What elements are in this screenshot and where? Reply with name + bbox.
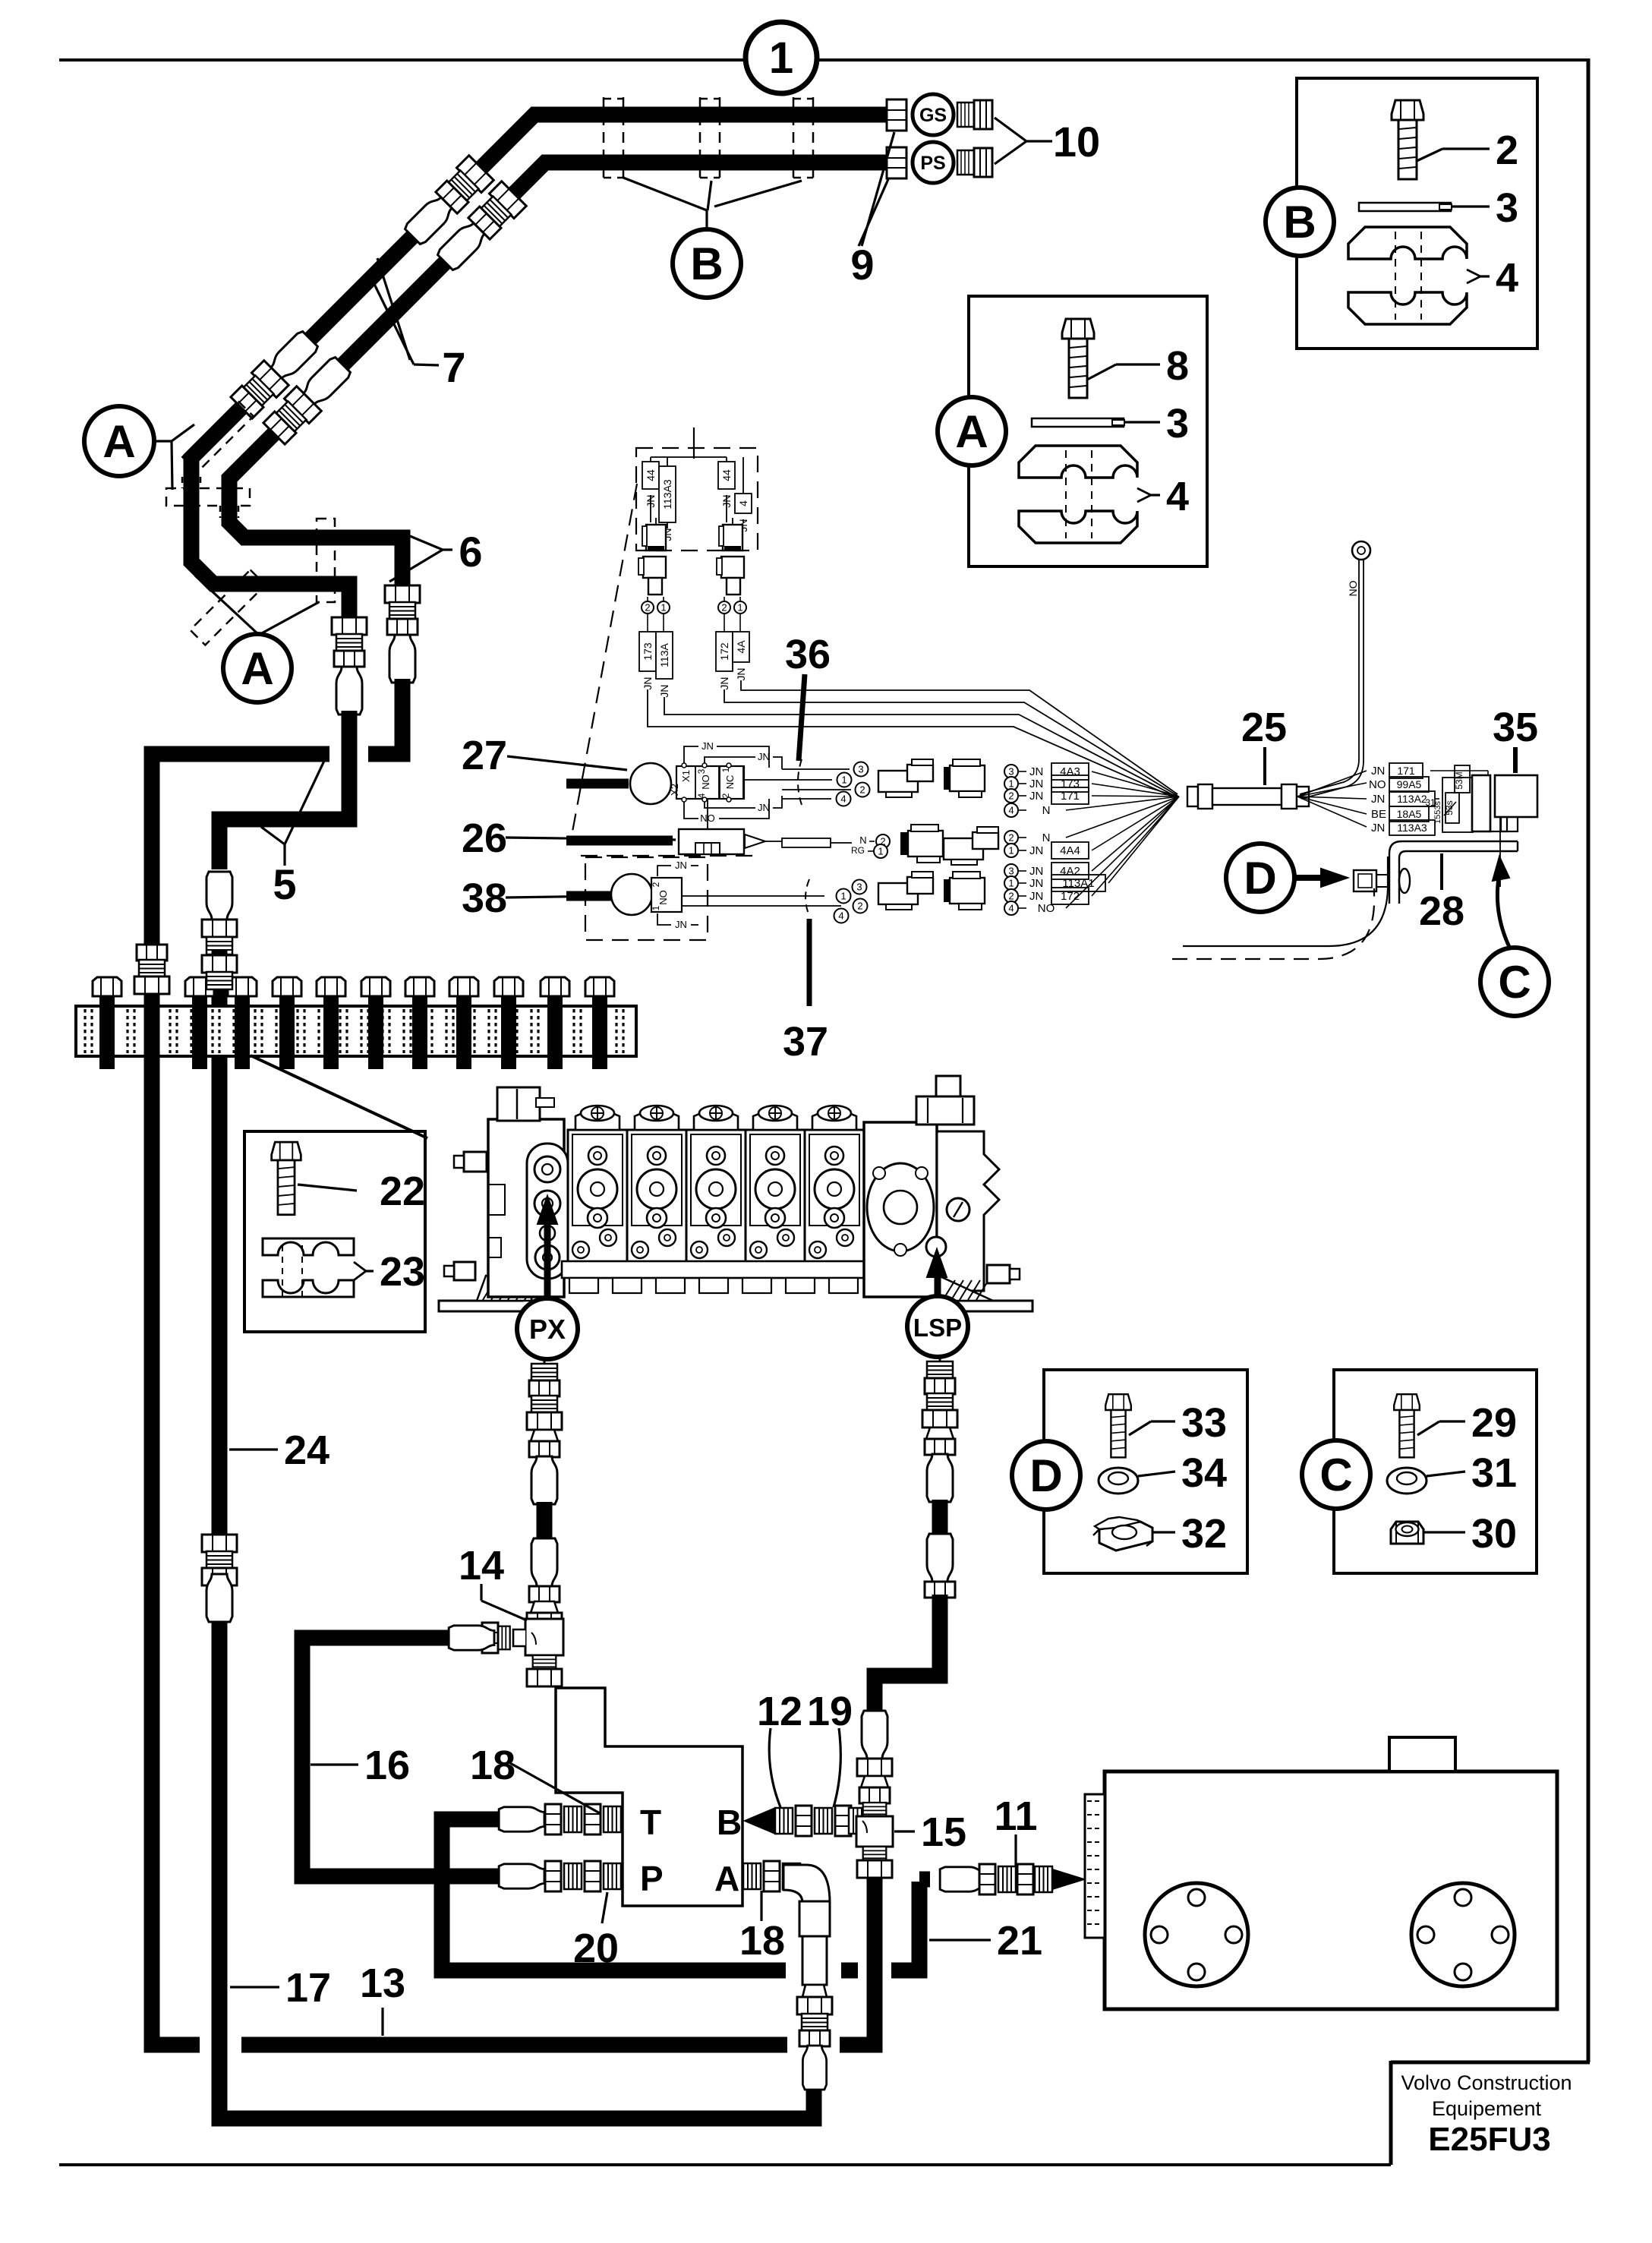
solenoid plug at x=851 xyxy=(646,525,666,550)
svg-text:15: 15 xyxy=(921,1809,966,1855)
balloon B xyxy=(673,229,741,298)
svg-text:C: C xyxy=(1319,1450,1352,1500)
svg-text:44: 44 xyxy=(720,469,733,481)
svg-text:171: 171 xyxy=(1061,790,1080,803)
fitting group on GS diagonal (nut+ferrule+nut) xyxy=(434,156,493,215)
label 3 leader (A) xyxy=(1124,421,1160,423)
svg-text:173: 173 xyxy=(642,642,654,661)
bolt 29 xyxy=(1394,1394,1420,1457)
balloon A lower with leaders xyxy=(195,576,259,635)
valve end section (LS / relief) xyxy=(864,1122,937,1297)
balloon A detail xyxy=(938,397,1006,465)
boxed label JN44 left xyxy=(642,462,659,489)
bolt 22 xyxy=(272,1142,301,1215)
hose 24 upper run xyxy=(212,951,228,1535)
hose end nut GS xyxy=(887,99,906,131)
clamp 4 (A box) xyxy=(1019,446,1137,543)
balloon D detail xyxy=(1012,1441,1080,1510)
svg-text:NO: NO xyxy=(657,890,669,905)
tank inlet strip xyxy=(1085,1794,1105,1938)
hydraulic tank xyxy=(1105,1771,1557,2009)
valve section 4 xyxy=(746,1130,805,1263)
port arrow PX xyxy=(544,1215,551,1300)
detail box A xyxy=(969,296,1207,566)
svg-text:173: 173 xyxy=(1061,778,1080,790)
lower fitting bullet on PS diagonal xyxy=(300,355,352,408)
nut+ferrule below bullet (hose 24) xyxy=(202,920,237,937)
svg-text:JN: JN xyxy=(1029,865,1043,878)
tank flange right xyxy=(1411,1883,1515,1986)
title block step lines xyxy=(1391,2061,1590,2065)
hose 7 upper (to GS) xyxy=(191,115,888,620)
svg-text:JN: JN xyxy=(1029,790,1043,803)
dashed clamp on diagonals (A) xyxy=(182,401,253,472)
balloon PX xyxy=(517,1298,578,1359)
svg-text:E25FU3: E25FU3 xyxy=(1428,2121,1550,2158)
svg-text:34: 34 xyxy=(1181,1450,1227,1496)
control valve block xyxy=(439,1287,531,1311)
label 23 leader xyxy=(354,1262,366,1280)
svg-text:18: 18 xyxy=(470,1743,515,1788)
wire label JN4A xyxy=(739,614,741,632)
fitting hose16 at T-14 (ferrule+nut+bullet) xyxy=(494,1626,510,1650)
svg-text:3: 3 xyxy=(856,882,862,893)
hose-end fitting right column (hose to PS) xyxy=(385,585,420,635)
fitting 11 with arrow into tank xyxy=(919,1872,930,1888)
label 16 leader xyxy=(311,1763,358,1765)
svg-text:113A3: 113A3 xyxy=(661,479,673,509)
svg-text:P: P xyxy=(640,1859,664,1898)
svg-text:A: A xyxy=(955,406,988,457)
union fitting on hose 24/17 xyxy=(202,1535,237,1585)
wire label JN113A xyxy=(663,614,664,632)
label 7 with leaders xyxy=(372,279,414,364)
tank flange left xyxy=(1145,1883,1248,1986)
crimp bullet on hose 24 top xyxy=(206,872,232,920)
svg-text:B: B xyxy=(717,1803,742,1842)
hose 24/17 fitting at manifold (hex+ferrule) xyxy=(202,955,237,973)
label 22 leader xyxy=(298,1185,357,1191)
connector housing below box x=847 xyxy=(643,557,666,578)
svg-text:6: 6 xyxy=(459,528,482,576)
svg-text:3: 3 xyxy=(1496,185,1518,231)
svg-text:BE: BE xyxy=(1371,808,1386,821)
label 6 with leaders xyxy=(410,536,443,550)
panel edge (solid + dashed) xyxy=(1183,857,1388,946)
svg-text:2: 2 xyxy=(645,602,650,614)
dashed clamp on verticals (A) xyxy=(166,488,250,506)
pin numbers under housings xyxy=(642,601,654,614)
washer 34 xyxy=(1099,1468,1138,1494)
svg-text:1: 1 xyxy=(737,602,742,614)
svg-text:2: 2 xyxy=(651,882,661,887)
svg-text:1: 1 xyxy=(878,846,883,857)
port marker PS xyxy=(913,142,954,183)
hose 16 xyxy=(302,1638,495,1876)
svg-text:JN: JN xyxy=(642,677,654,689)
JN bracket wiring bottom xyxy=(684,801,698,819)
svg-text:12: 12 xyxy=(757,1689,802,1734)
svg-text:1: 1 xyxy=(769,33,793,83)
svg-text:36: 36 xyxy=(785,632,831,677)
svg-text:Equipement: Equipement xyxy=(1432,2097,1542,2120)
bolt 8 xyxy=(1062,319,1094,398)
crimp bullet on PS diagonal xyxy=(436,219,488,272)
manifold bar hatch dots xyxy=(84,1009,86,1053)
bolt 2 xyxy=(1392,100,1423,179)
svg-text:1: 1 xyxy=(660,602,666,614)
clamp dashes on top hoses (positions B) xyxy=(603,97,605,179)
svg-text:28: 28 xyxy=(1419,888,1464,934)
lower fitting nut group on PS diagonal xyxy=(262,386,321,446)
svg-text:3: 3 xyxy=(696,768,707,774)
svg-text:JN: JN xyxy=(1371,793,1385,806)
T-fitting 14 xyxy=(525,1619,563,1655)
svg-text:JN: JN xyxy=(1029,844,1043,857)
boxed label JN4 xyxy=(735,494,752,513)
label 2 leader xyxy=(1417,149,1442,161)
balloon LSP xyxy=(907,1296,968,1357)
svg-text:T: T xyxy=(640,1803,661,1842)
svg-text:NO: NO xyxy=(1347,580,1359,596)
detail box 22/23 xyxy=(244,1131,425,1332)
svg-text:JN: JN xyxy=(758,802,770,813)
svg-text:NC: NC xyxy=(724,775,736,790)
pigtail from 26 xyxy=(745,834,765,848)
svg-text:JN: JN xyxy=(735,667,747,680)
svg-text:10: 10 xyxy=(1053,118,1100,166)
wire from relay to bracket xyxy=(1499,817,1501,887)
svg-text:5: 5 xyxy=(273,860,296,908)
svg-text:4A2: 4A2 xyxy=(1060,865,1080,878)
svg-text:JN: JN xyxy=(1029,778,1043,790)
connector mini-block xyxy=(1442,778,1473,832)
pressure switch 27 xyxy=(630,763,671,804)
nut 30 xyxy=(1391,1522,1423,1544)
label 11 leader xyxy=(1014,1834,1017,1866)
label 25 leader xyxy=(1263,747,1266,785)
svg-text:172: 172 xyxy=(718,642,730,661)
hydraulic stub to valve 26 xyxy=(566,836,673,846)
svg-text:1: 1 xyxy=(841,774,846,786)
svg-text:4: 4 xyxy=(838,910,843,922)
label 14 leader xyxy=(480,1584,482,1601)
solenoid 38 xyxy=(611,874,652,915)
washer 31 xyxy=(1387,1468,1427,1494)
cable marker 36 xyxy=(798,759,802,805)
svg-text:30: 30 xyxy=(1471,1511,1517,1557)
svg-text:PX: PX xyxy=(529,1314,566,1345)
hose segment below left column xyxy=(219,711,349,869)
boxed label JN44 right xyxy=(718,462,735,489)
svg-text:37: 37 xyxy=(783,1019,828,1065)
hose below T-15 to band 13 xyxy=(840,1878,875,2045)
clamp 4 (two-hole block pair) xyxy=(1348,227,1467,324)
valve section 1 xyxy=(568,1130,627,1263)
svg-text:2: 2 xyxy=(1496,128,1518,173)
svg-text:113A2: 113A2 xyxy=(1397,793,1427,805)
label 15 leader xyxy=(894,1830,915,1832)
connector pair bottom xyxy=(878,883,918,904)
ring terminal wire xyxy=(1300,560,1359,794)
hose-end fitting left column (hose to GS) xyxy=(332,617,367,667)
svg-text:B: B xyxy=(1283,197,1316,248)
svg-text:B: B xyxy=(690,238,723,289)
svg-text:JN: JN xyxy=(675,919,687,930)
balloon C detail xyxy=(1302,1440,1370,1509)
electrical: dashed connector box top xyxy=(636,448,758,550)
lower fitting nut group on GS diagonal xyxy=(229,361,288,420)
A-port elbow fitting stack xyxy=(743,1863,761,1889)
svg-text:53M: 53M xyxy=(1454,771,1464,789)
svg-text:2: 2 xyxy=(1008,832,1014,844)
svg-text:PS: PS xyxy=(920,153,945,174)
svg-text:35: 35 xyxy=(1493,705,1538,750)
svg-text:JN: JN xyxy=(1029,890,1043,903)
label 3 leader xyxy=(1451,205,1490,207)
JN bracket wiring top xyxy=(684,746,698,764)
svg-text:26: 26 xyxy=(462,815,507,861)
svg-text:3: 3 xyxy=(1008,766,1014,778)
svg-text:21: 21 xyxy=(997,1918,1042,1964)
label 21 leader xyxy=(929,1939,991,1941)
band B3 left part (hose 5 upper) xyxy=(152,754,329,951)
svg-text:25: 25 xyxy=(1241,705,1287,750)
diverter valve box outline xyxy=(556,1688,742,1906)
svg-text:N: N xyxy=(1042,804,1051,817)
port arrow LSP xyxy=(935,1272,941,1296)
clamp halves 23 xyxy=(263,1238,354,1255)
svg-text:2: 2 xyxy=(857,901,862,912)
LSP hose fitting stack xyxy=(939,1357,941,1364)
svg-text:JN: JN xyxy=(758,751,770,762)
connector housing below box x=950 xyxy=(721,557,744,578)
washer 3 (A) xyxy=(1032,418,1124,427)
lower fitting bullet on GS diagonal xyxy=(267,330,320,382)
svg-text:4: 4 xyxy=(1496,255,1518,301)
svg-text:18A5: 18A5 xyxy=(1397,808,1422,820)
svg-text:27: 27 xyxy=(462,733,507,778)
leader from manifold to detail box 22/23 xyxy=(251,1055,427,1138)
fitting row at P port (20) xyxy=(495,1869,531,1885)
leader lines to balloon B xyxy=(623,178,707,210)
svg-text:RG: RG xyxy=(851,845,865,856)
detail box C xyxy=(1334,1370,1537,1573)
label 10 with leaders xyxy=(995,118,1026,141)
svg-text:22: 22 xyxy=(380,1169,425,1214)
LSP lower crimp stack xyxy=(927,1534,953,1582)
detail box D xyxy=(1044,1370,1247,1573)
manifold clamp bar xyxy=(76,1006,636,1056)
bolt at D xyxy=(1354,870,1376,891)
solenoid plug at x=952 xyxy=(723,525,742,550)
hydraulic stub to solenoid 38 xyxy=(566,891,612,901)
svg-text:1: 1 xyxy=(1008,845,1014,857)
svg-text:4: 4 xyxy=(1008,903,1014,914)
svg-text:4: 4 xyxy=(840,793,846,805)
hose LSP short segment xyxy=(932,1500,948,1538)
labels 12 19 with leaders xyxy=(769,1728,780,1807)
connector pair middle xyxy=(908,831,943,857)
svg-text:38: 38 xyxy=(462,875,507,921)
dashed clamp lower diagonal jog xyxy=(191,570,266,645)
hose 17 lower run to A port stack xyxy=(219,1535,814,2118)
svg-text:11: 11 xyxy=(994,1793,1037,1839)
svg-text:17: 17 xyxy=(285,1965,331,2011)
svg-text:31: 31 xyxy=(1471,1450,1517,1496)
label 28 leader xyxy=(1440,853,1443,890)
relay block X1/X2 xyxy=(676,766,744,799)
svg-text:19: 19 xyxy=(807,1689,853,1734)
svg-text:JN: JN xyxy=(1371,822,1385,834)
svg-text:JN: JN xyxy=(718,677,730,689)
balloon 1 xyxy=(746,22,817,93)
port marker GS xyxy=(913,94,954,135)
switch 26 body xyxy=(679,829,744,854)
svg-text:113A3: 113A3 xyxy=(1397,822,1427,834)
svg-text:8: 8 xyxy=(1166,343,1189,389)
dashed boundary around switch assembly xyxy=(581,855,758,857)
arrow into B port xyxy=(745,1809,774,1833)
svg-text:JN: JN xyxy=(701,740,714,752)
hydraulic stub to switch 27 xyxy=(566,779,629,789)
svg-text:13: 13 xyxy=(360,1961,405,2006)
PX lower crimp stack xyxy=(531,1538,557,1586)
fitting group on PS diagonal (nut+ferrule+nut) xyxy=(467,181,526,241)
svg-text:3: 3 xyxy=(1166,401,1189,446)
svg-text:GS: GS xyxy=(919,105,947,126)
hose PX short segment xyxy=(537,1502,553,1538)
balloon C with curved arrow xyxy=(1480,948,1549,1016)
label 8 leader xyxy=(1087,364,1116,380)
manifold bolts xyxy=(93,977,121,1069)
label 27 leader xyxy=(507,756,627,770)
svg-text:18: 18 xyxy=(739,1918,785,1964)
wires to harness xyxy=(648,689,1178,799)
svg-text:171: 171 xyxy=(1397,765,1415,777)
relay 35 and bracket xyxy=(1472,775,1490,831)
svg-text:A: A xyxy=(241,643,273,694)
svg-text:A: A xyxy=(714,1859,739,1898)
label 4 leader (A) xyxy=(1137,488,1151,502)
harness wire tag rows xyxy=(1004,765,1018,778)
svg-text:N: N xyxy=(859,834,866,846)
svg-text:N: N xyxy=(1042,831,1051,844)
svg-text:4A: 4A xyxy=(735,640,747,654)
svg-text:NO: NO xyxy=(1038,902,1055,915)
plug fitting 10 upper xyxy=(957,100,992,129)
svg-text:1: 1 xyxy=(1008,878,1014,889)
wire label JN173 xyxy=(647,614,648,632)
detail box B xyxy=(1297,78,1537,349)
bracket 28 xyxy=(1389,841,1518,904)
valve block bottom rail xyxy=(562,1261,913,1278)
cable marker 37 xyxy=(806,879,809,916)
label 38 leader xyxy=(506,896,610,898)
svg-text:2: 2 xyxy=(859,784,865,796)
label 24 leader xyxy=(229,1448,278,1450)
svg-text:1553s: 1553s xyxy=(1433,801,1442,824)
tank filler neck xyxy=(1389,1737,1455,1771)
svg-text:2: 2 xyxy=(1008,891,1014,902)
hose LSP to T-15 xyxy=(875,1595,940,1718)
svg-text:JN: JN xyxy=(1029,765,1043,778)
svg-text:4: 4 xyxy=(1008,805,1014,816)
plug fitting 10 lower xyxy=(957,148,992,177)
label 20 leader xyxy=(602,1892,607,1923)
svg-text:NO: NO xyxy=(1369,778,1386,791)
label 18 left leader xyxy=(510,1763,600,1813)
balloon D with arrow xyxy=(1226,844,1294,912)
svg-text:1: 1 xyxy=(651,905,661,910)
label 26 leader xyxy=(506,838,676,840)
balloon B detail xyxy=(1266,188,1334,256)
svg-text:D: D xyxy=(1029,1450,1062,1501)
crimp bullet on GS diagonal xyxy=(403,194,456,246)
fitting row B port (12/19) xyxy=(775,1808,793,1834)
valve section 2 xyxy=(627,1130,686,1263)
svg-text:2: 2 xyxy=(721,602,727,614)
svg-text:D: D xyxy=(1244,853,1276,904)
page frame top rule xyxy=(59,58,746,62)
wire label JN172 xyxy=(724,614,725,632)
svg-text:113A: 113A xyxy=(658,643,670,667)
svg-text:24: 24 xyxy=(284,1428,329,1473)
svg-text:4A4: 4A4 xyxy=(1060,844,1080,857)
page frame bottom rule xyxy=(59,2163,1391,2166)
hose 13 fitting at manifold (nut+ferrule+hex) xyxy=(152,951,200,2045)
svg-text:X2: X2 xyxy=(669,784,680,796)
svg-text:4: 4 xyxy=(1166,474,1189,519)
connector pair top xyxy=(878,771,918,792)
dashed clamp on B1/B2 bands xyxy=(317,519,335,602)
svg-text:172: 172 xyxy=(1061,890,1080,903)
svg-text:JN: JN xyxy=(1371,765,1385,778)
dashed diagonal boundary xyxy=(571,484,637,840)
valve section 3 xyxy=(686,1130,746,1263)
svg-text:1: 1 xyxy=(1008,778,1014,790)
fitting row at T port (18) xyxy=(481,1812,531,1828)
svg-text:3: 3 xyxy=(858,764,863,775)
svg-text:JN: JN xyxy=(658,684,670,697)
balloon A upper xyxy=(84,406,154,476)
svg-text:JN: JN xyxy=(675,860,687,871)
svg-text:A: A xyxy=(102,416,135,467)
svg-text:23: 23 xyxy=(380,1249,425,1295)
label 17 leader xyxy=(230,1986,279,1988)
hose end nut PS xyxy=(887,147,906,178)
svg-text:16: 16 xyxy=(364,1743,410,1788)
band 13 (long) xyxy=(241,2037,787,2053)
page frame right rule xyxy=(1587,58,1591,2062)
svg-text:33: 33 xyxy=(1181,1400,1227,1446)
hose from T port to tank (21 route) xyxy=(442,1819,786,1970)
label 5 with leaders xyxy=(261,827,285,844)
svg-text:32: 32 xyxy=(1181,1511,1227,1557)
label 9 with leaders xyxy=(862,132,894,246)
harness right fan wires xyxy=(1297,771,1367,797)
svg-text:C: C xyxy=(1498,957,1531,1008)
svg-text:NO: NO xyxy=(700,774,711,790)
svg-text:99A5: 99A5 xyxy=(1397,778,1422,790)
svg-text:3: 3 xyxy=(1008,866,1014,877)
solenoid 38 wires xyxy=(682,895,824,897)
svg-text:2: 2 xyxy=(1008,790,1014,802)
cage nut 32 xyxy=(1093,1517,1152,1551)
svg-text:JN: JN xyxy=(1029,877,1043,890)
label 13 leader xyxy=(381,2008,383,2036)
svg-text:X1: X1 xyxy=(680,770,692,782)
